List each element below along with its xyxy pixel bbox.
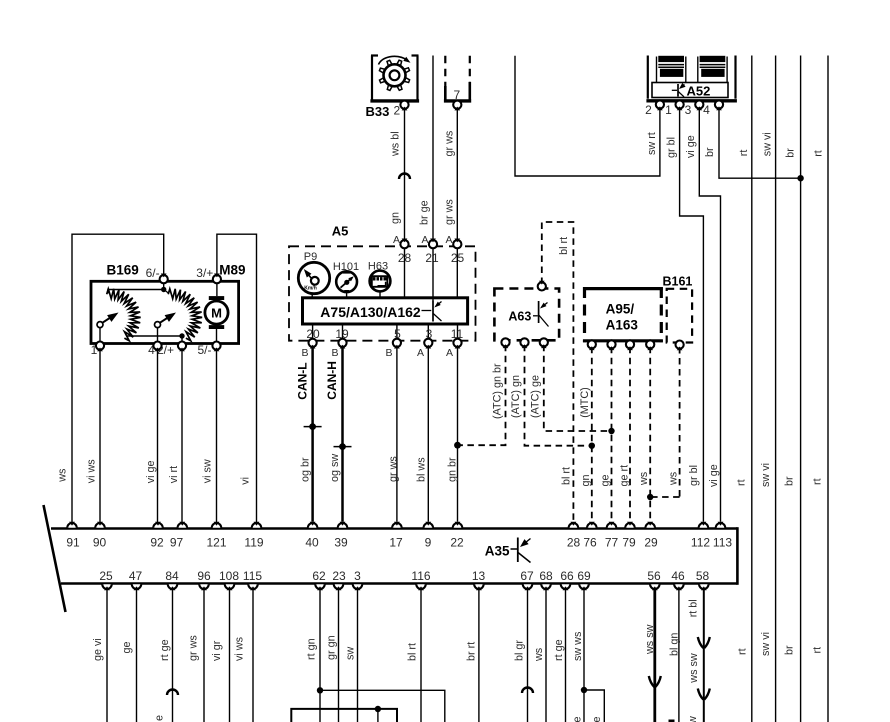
svg-text:17: 17 <box>389 536 403 550</box>
svg-text:B169: B169 <box>107 263 139 278</box>
svg-text:ws: ws <box>533 647 545 662</box>
svg-text:2: 2 <box>645 103 652 117</box>
svg-text:rt: rt <box>811 647 823 654</box>
svg-text:ge vi: ge vi <box>92 638 104 661</box>
svg-text:91: 91 <box>66 536 80 550</box>
svg-text:A: A <box>445 234 452 246</box>
svg-text:bl gn: bl gn <box>668 633 680 656</box>
svg-text:39: 39 <box>334 536 348 550</box>
svg-text:ws: ws <box>56 468 68 483</box>
svg-text:3: 3 <box>685 103 692 117</box>
svg-text:rt ge: rt ge <box>159 639 171 661</box>
svg-text:25: 25 <box>99 569 113 583</box>
svg-text:B161: B161 <box>663 274 693 288</box>
svg-text:bl rt: bl rt <box>560 467 572 485</box>
svg-text:M89: M89 <box>219 263 245 278</box>
svg-text:77: 77 <box>605 536 619 550</box>
svg-text:P9: P9 <box>304 251 317 263</box>
svg-text:w: w <box>687 716 699 722</box>
svg-text:e: e <box>591 716 603 722</box>
svg-text:ge: ge <box>599 474 611 486</box>
svg-text:gr bl: gr bl <box>688 465 700 486</box>
svg-text:vi gr: vi gr <box>211 640 223 661</box>
svg-text:sw ws: sw ws <box>572 631 584 661</box>
svg-text:40: 40 <box>305 536 319 550</box>
svg-text:(ATC) gn br: (ATC) gn br <box>491 363 503 419</box>
svg-text:br ge: br ge <box>418 200 430 225</box>
svg-text:vi ge: vi ge <box>685 135 697 158</box>
svg-text:67: 67 <box>520 569 534 583</box>
svg-text:6/-: 6/- <box>146 266 160 280</box>
svg-text:A35: A35 <box>485 543 510 558</box>
svg-text:CAN-L: CAN-L <box>295 362 309 399</box>
svg-text:gr ws: gr ws <box>188 635 200 661</box>
svg-text:rt: rt <box>812 150 824 157</box>
svg-text:rt bl: rt bl <box>687 599 699 617</box>
svg-text:79: 79 <box>622 536 636 550</box>
svg-text:5/-: 5/- <box>197 343 211 357</box>
svg-text:B: B <box>301 347 308 359</box>
svg-text:108: 108 <box>219 569 239 583</box>
svg-text:br: br <box>784 148 796 158</box>
svg-text:ws: ws <box>668 471 680 486</box>
svg-text:vi rt: vi rt <box>168 466 180 483</box>
svg-text:gr bl: gr bl <box>665 137 677 158</box>
svg-text:vi ws: vi ws <box>233 636 245 661</box>
svg-text:3/+: 3/+ <box>196 266 213 280</box>
svg-text:47: 47 <box>129 569 143 583</box>
svg-text:21: 21 <box>425 251 439 265</box>
svg-text:rt: rt <box>738 150 750 157</box>
svg-text:bl rt: bl rt <box>558 237 570 255</box>
svg-text:121: 121 <box>206 536 226 550</box>
svg-text:ws sw: ws sw <box>688 653 700 684</box>
svg-text:90: 90 <box>93 536 107 550</box>
svg-text:sw rt: sw rt <box>646 132 658 155</box>
svg-text:9: 9 <box>425 536 432 550</box>
svg-text:97: 97 <box>170 536 184 550</box>
svg-text:sw: sw <box>345 647 357 660</box>
svg-text:rt: rt <box>811 478 823 485</box>
svg-text:e: e <box>571 716 583 722</box>
svg-text:vi ge: vi ge <box>145 460 157 483</box>
svg-text:A: A <box>393 234 400 246</box>
svg-text:119: 119 <box>244 536 263 550</box>
svg-text:br: br <box>783 476 795 486</box>
svg-text:3: 3 <box>354 569 361 583</box>
svg-text:ws sw: ws sw <box>644 624 656 655</box>
svg-text:ws bl: ws bl <box>389 131 401 157</box>
svg-text:1: 1 <box>665 103 672 117</box>
svg-text:sw vi: sw vi <box>760 463 772 487</box>
svg-text:A: A <box>421 234 428 246</box>
svg-text:62: 62 <box>312 569 326 583</box>
svg-text:og br: og br <box>299 457 311 482</box>
svg-text:28: 28 <box>567 536 581 550</box>
svg-text:96: 96 <box>197 569 211 583</box>
svg-text:B: B <box>331 347 338 359</box>
svg-text:A: A <box>446 347 453 359</box>
svg-text:rt: rt <box>735 479 747 486</box>
svg-text:113: 113 <box>713 536 732 550</box>
svg-text:A: A <box>417 347 424 359</box>
svg-text:og sw: og sw <box>329 454 341 482</box>
svg-text:ge: ge <box>121 641 133 653</box>
svg-text:e: e <box>153 715 165 721</box>
svg-text:CAN-H: CAN-H <box>325 361 339 400</box>
svg-text:66: 66 <box>560 569 574 583</box>
svg-text:A163: A163 <box>606 318 639 333</box>
svg-text:gr ws: gr ws <box>443 130 455 156</box>
svg-text:A95/: A95/ <box>606 302 635 317</box>
svg-text:gr ws: gr ws <box>443 199 455 225</box>
svg-text:ge rt: ge rt <box>619 465 631 487</box>
svg-text:115: 115 <box>243 569 262 583</box>
svg-text:rt gn: rt gn <box>306 638 318 660</box>
svg-text:gn: gn <box>389 212 401 224</box>
svg-text:(ATC) ge: (ATC) ge <box>529 375 541 418</box>
svg-text:69: 69 <box>577 569 591 583</box>
svg-text:58: 58 <box>696 569 710 583</box>
svg-text:116: 116 <box>411 569 430 583</box>
svg-text:rt: rt <box>736 648 748 655</box>
svg-text:gr ws: gr ws <box>388 456 400 482</box>
svg-text:br rt: br rt <box>465 642 477 661</box>
svg-text:29: 29 <box>644 536 658 550</box>
svg-text:(MTC): (MTC) <box>579 387 591 418</box>
svg-text:gn br: gn br <box>446 457 458 482</box>
svg-text:A5: A5 <box>332 224 349 239</box>
svg-text:22: 22 <box>450 536 464 550</box>
svg-text:46: 46 <box>671 569 685 583</box>
svg-text:vi ge: vi ge <box>708 464 720 487</box>
svg-text:vi ws: vi ws <box>85 459 97 484</box>
svg-text:H101: H101 <box>333 261 359 273</box>
svg-text:bl gr: bl gr <box>514 640 526 661</box>
svg-text:A52: A52 <box>687 84 711 99</box>
svg-text:br: br <box>783 645 795 655</box>
svg-text:br: br <box>704 147 716 157</box>
svg-text:76: 76 <box>583 536 597 550</box>
svg-text:(ATC) gn: (ATC) gn <box>510 375 522 418</box>
svg-text:112: 112 <box>691 536 710 550</box>
svg-text:13: 13 <box>472 569 486 583</box>
svg-text:vi: vi <box>239 477 251 485</box>
svg-text:H63: H63 <box>368 261 388 273</box>
svg-text:56: 56 <box>647 569 661 583</box>
svg-text:68: 68 <box>539 569 553 583</box>
svg-text:84: 84 <box>165 569 179 583</box>
svg-text:B: B <box>385 347 392 359</box>
svg-text:gn: gn <box>580 474 592 486</box>
svg-text:vi sw: vi sw <box>201 459 213 483</box>
svg-text:M: M <box>211 305 222 320</box>
svg-text:bl rt: bl rt <box>407 643 419 661</box>
svg-text:A75/A130/A162: A75/A130/A162 <box>320 304 421 320</box>
svg-text:bl ws: bl ws <box>415 457 427 482</box>
svg-text:rt ge: rt ge <box>553 639 565 661</box>
svg-text:23: 23 <box>332 569 346 583</box>
svg-text:92: 92 <box>150 536 164 550</box>
svg-text:A63: A63 <box>508 310 531 324</box>
svg-text:Km/h: Km/h <box>304 286 317 292</box>
svg-text:gr gn: gr gn <box>326 635 338 660</box>
svg-text:sw vi: sw vi <box>760 632 772 656</box>
svg-text:ws: ws <box>638 471 650 486</box>
svg-text:B33: B33 <box>366 104 390 119</box>
svg-text:sw vi: sw vi <box>761 132 773 156</box>
